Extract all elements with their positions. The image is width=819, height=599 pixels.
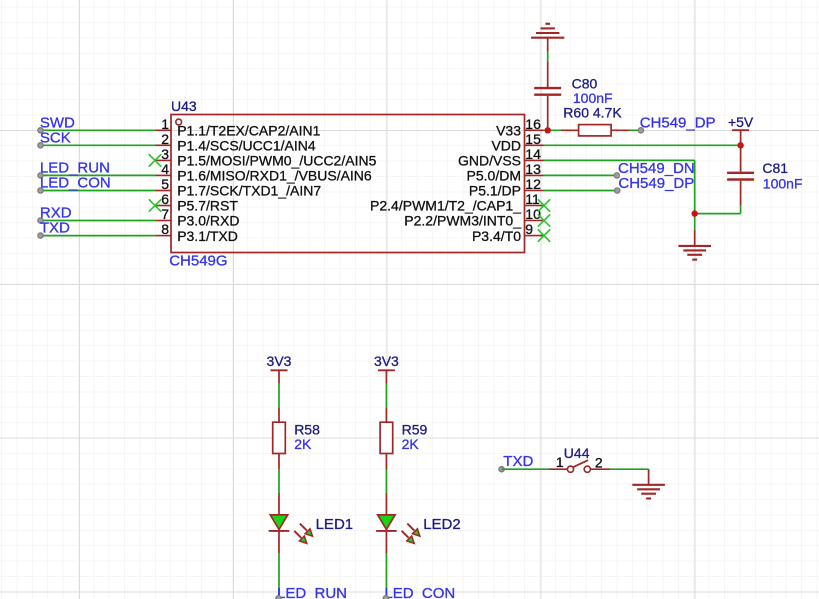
svg-text:P5.0/DM: P5.0/DM: [467, 168, 521, 184]
svg-text:14: 14: [525, 146, 541, 162]
svg-text:P5.7/RST: P5.7/RST: [177, 198, 238, 214]
svg-text:P3.1/TXD: P3.1/TXD: [177, 228, 238, 244]
svg-text:2K: 2K: [402, 436, 420, 452]
svg-text:13: 13: [525, 161, 541, 177]
svg-text:12: 12: [525, 176, 541, 192]
svg-text:3V3: 3V3: [267, 353, 292, 369]
svg-text:CH549_DP: CH549_DP: [618, 175, 694, 192]
svg-text:LED1: LED1: [316, 516, 354, 533]
svg-text:C80: C80: [572, 75, 598, 91]
svg-text:2: 2: [161, 131, 169, 147]
svg-text:LED_CON: LED_CON: [40, 175, 111, 192]
svg-text:P1.5/MOSI/PWM0_/UCC2/AIN5: P1.5/MOSI/PWM0_/UCC2/AIN5: [177, 153, 376, 169]
svg-text:100nF: 100nF: [763, 175, 803, 191]
svg-text:TXD: TXD: [503, 453, 533, 470]
svg-text:C81: C81: [762, 160, 788, 176]
svg-text:P3.4/T0: P3.4/T0: [472, 228, 521, 244]
svg-text:P3.0/RXD: P3.0/RXD: [177, 213, 239, 229]
svg-text:5: 5: [161, 176, 169, 192]
svg-text:U43: U43: [171, 98, 197, 114]
svg-text:P2.2/PWM3/INT0_: P2.2/PWM3/INT0_: [404, 213, 521, 229]
svg-text:CH549G: CH549G: [169, 253, 227, 270]
svg-text:P1.1/T2EX/CAP2/AIN1: P1.1/T2EX/CAP2/AIN1: [177, 123, 320, 139]
svg-text:2: 2: [595, 455, 603, 471]
svg-text:LED_RUN: LED_RUN: [277, 585, 347, 599]
svg-text:CH549_DP: CH549_DP: [640, 114, 716, 131]
svg-text:16: 16: [525, 116, 541, 132]
svg-text:6: 6: [161, 191, 169, 207]
svg-text:3: 3: [161, 146, 169, 162]
svg-text:R60 4.7K: R60 4.7K: [563, 104, 622, 120]
svg-text:9: 9: [525, 221, 533, 237]
svg-text:VDD: VDD: [491, 138, 521, 154]
svg-text:P1.7/SCK/TXD1_/AIN7: P1.7/SCK/TXD1_/AIN7: [177, 183, 321, 199]
svg-text:3V3: 3V3: [374, 353, 399, 369]
svg-text:15: 15: [525, 131, 541, 147]
svg-text:V33: V33: [496, 123, 521, 139]
svg-text:P1.4/SCS/UCC1/AIN4: P1.4/SCS/UCC1/AIN4: [177, 138, 316, 154]
svg-text:LED2: LED2: [423, 516, 461, 533]
svg-text:SCK: SCK: [40, 129, 71, 146]
svg-text:U44: U44: [564, 445, 590, 461]
svg-text:4: 4: [161, 161, 169, 177]
svg-text:P2.4/PWM1/T2_/CAP1_: P2.4/PWM1/T2_/CAP1_: [370, 198, 521, 214]
svg-text:2K: 2K: [294, 436, 312, 452]
svg-text:11: 11: [525, 191, 540, 207]
svg-text:GND/VSS: GND/VSS: [458, 153, 521, 169]
svg-text:8: 8: [161, 221, 169, 237]
svg-text:1: 1: [161, 116, 169, 132]
svg-text:10: 10: [525, 206, 541, 222]
svg-text:7: 7: [161, 206, 169, 222]
svg-text:LED_CON: LED_CON: [384, 585, 455, 599]
svg-text:P1.6/MISO/RXD1_/VBUS/AIN6: P1.6/MISO/RXD1_/VBUS/AIN6: [177, 168, 372, 184]
svg-text:P5.1/DP: P5.1/DP: [469, 183, 521, 199]
svg-text:+5V: +5V: [728, 114, 754, 130]
svg-text:1: 1: [556, 454, 564, 470]
svg-text:TXD: TXD: [40, 220, 70, 237]
